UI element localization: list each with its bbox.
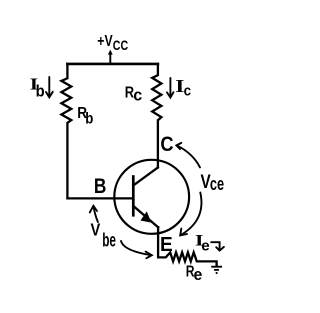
svg-text:ce: ce [210,174,224,194]
svg-text:be: be [102,230,116,251]
svg-text:CC: CC [113,38,128,53]
svg-text:B: B [94,175,107,198]
svg-text:e: e [194,265,203,284]
svg-text:C: C [160,132,173,156]
svg-text:b: b [36,82,45,101]
svg-text:+V: +V [97,33,113,50]
svg-text:e: e [201,237,209,254]
svg-text:V: V [91,220,101,240]
svg-text:c: c [133,87,142,105]
svg-text:c: c [184,82,192,99]
svg-text:b: b [85,111,93,128]
svg-text:E: E [160,233,173,256]
